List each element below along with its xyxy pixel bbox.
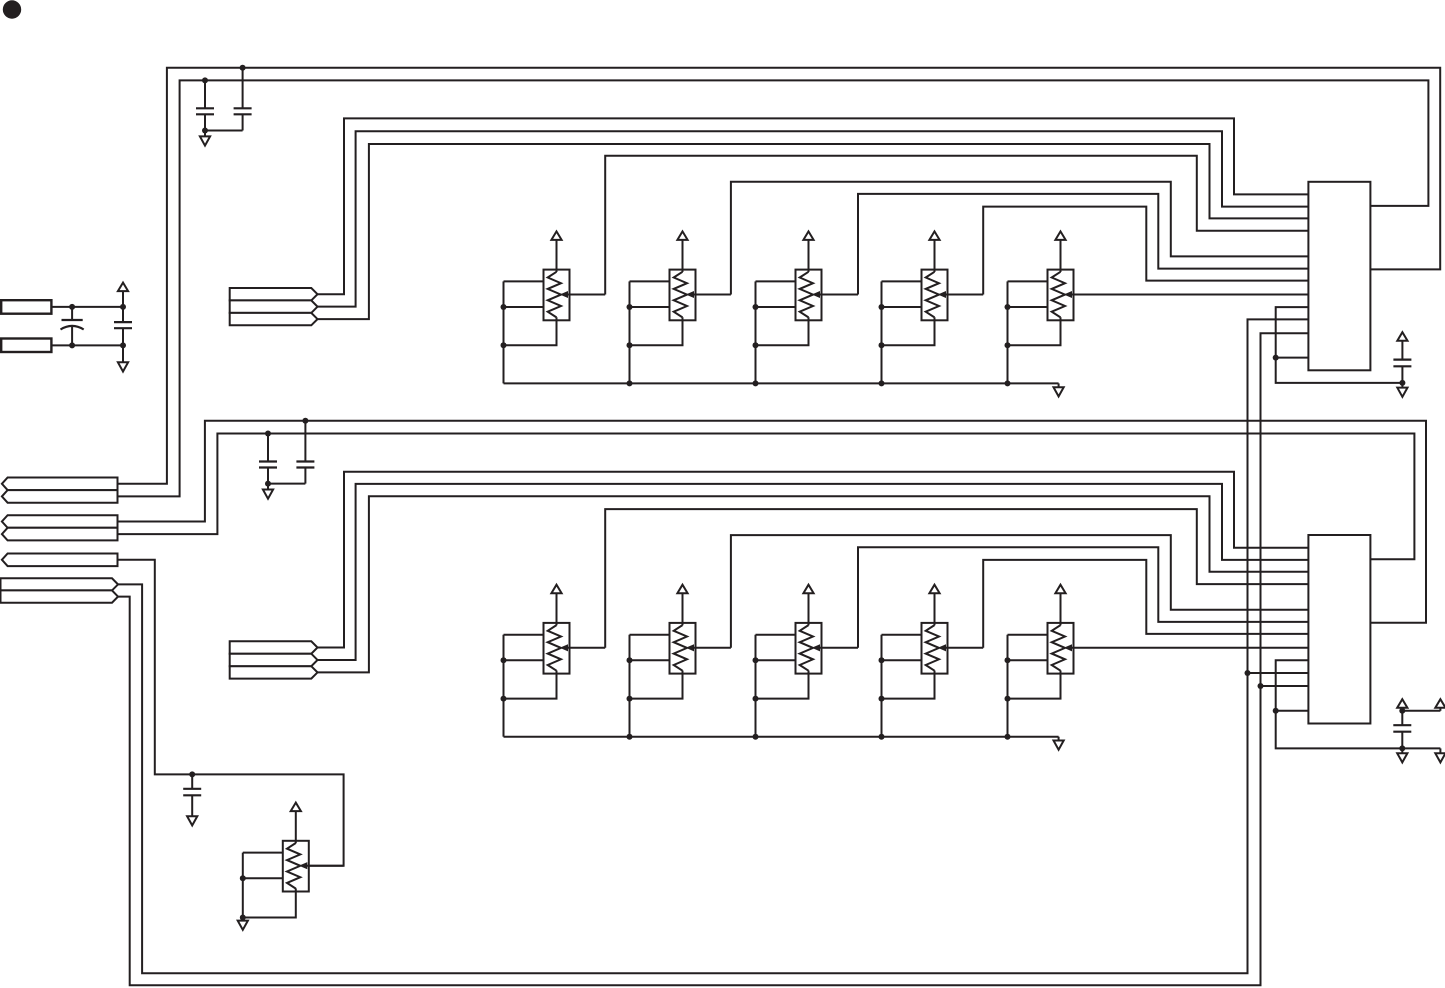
ground (section2 caps) — [263, 484, 273, 499]
wiper arrow of digital pot RV5 — [1065, 291, 1309, 297]
connector J5 band — [2, 554, 118, 567]
wire net W7 riser — [731, 535, 1309, 648]
terminal stub B of digital pot RV9 — [882, 659, 922, 661]
connector J4 band 1 — [2, 515, 118, 528]
connector J6 band 2 — [1, 590, 119, 602]
IC U1 — [1308, 182, 1370, 370]
wire BUSA pin stub — [1248, 672, 1309, 674]
node junction C8 gnd — [1399, 745, 1405, 751]
wire BUSB pin stub — [1261, 685, 1309, 687]
capacitor C3 (section1) — [1393, 360, 1411, 383]
wire GND1 pin stub — [1276, 357, 1309, 359]
bottom terminal of digital pot RV7 — [630, 671, 683, 699]
node junction C1/C2 gnd — [202, 128, 208, 134]
left bus wire of digital pot RV6 — [503, 635, 505, 737]
terminal stub A of digital pot RV8 — [756, 634, 796, 636]
left bus wire of digital pot RV8 — [755, 635, 757, 737]
bottom terminal of digital pot RV9 — [882, 671, 935, 699]
wire net VDD1 inner loop — [118, 80, 1428, 496]
terminal stub B of digital pot RV8 — [756, 659, 796, 661]
node junction B of digital pot RV1 — [501, 304, 507, 310]
wiper arrow of digital pot RV7 — [687, 645, 731, 651]
terminal stub A of digital pot RV1 — [504, 280, 544, 282]
left bus wire of digital pot RV10 — [1007, 635, 1009, 737]
node junction bus2 — [753, 734, 759, 740]
power arrow (battery) — [118, 283, 128, 307]
capacitor C5 — [114, 307, 132, 346]
bottom terminal of digital pot RV3 — [756, 317, 809, 345]
wiper arrow of digital pot RV11 — [300, 863, 344, 869]
node junction B of digital pot RV8 — [753, 657, 759, 663]
connector J3 band 1 — [2, 478, 118, 491]
wire net SIG2A — [318, 472, 1309, 648]
ground (battery) — [118, 345, 128, 371]
terminal stub A of digital pot RV5 — [1008, 280, 1048, 282]
wire net W3 riser — [858, 194, 1308, 295]
wire net W6 riser — [605, 509, 1308, 648]
wiper arrow of digital pot RV3 — [813, 291, 859, 297]
bottom terminal of digital pot RV8 — [756, 671, 809, 699]
wire net SIG2C — [318, 496, 1309, 672]
node junction on inner loop — [202, 77, 208, 83]
digital pot RV3 body with resistor element — [796, 270, 822, 321]
digital pot RV9 body with resistor element — [922, 623, 948, 674]
left bus wire of digital pot RV2 — [629, 281, 631, 383]
ground (section1 pot bus) — [1054, 383, 1064, 396]
left bus wire of digital pot RV7 — [629, 635, 631, 737]
left bus wire of digital pot RV3 — [755, 281, 757, 383]
connector J7 band 1 — [230, 641, 318, 653]
node junction C5 top — [120, 304, 126, 310]
digital pot RV5 body with resistor element — [1048, 270, 1074, 321]
terminal stub B of digital pot RV3 — [756, 306, 796, 308]
digital pot RV1 body with resistor element — [544, 270, 570, 321]
terminal stub A of digital pot RV2 — [630, 280, 670, 282]
terminal pad P1 — [1, 300, 51, 314]
ground (right edge) — [1435, 748, 1445, 762]
node junction bus1 — [879, 380, 885, 386]
terminal stub B of digital pot RV6 — [504, 659, 544, 661]
capacitor C7 (section2) — [268, 421, 314, 484]
node junction GND1 pin — [1273, 355, 1279, 361]
left bus wire of digital pot RV1 — [503, 281, 505, 383]
terminal stub B of digital pot RV1 — [504, 306, 544, 308]
power arrow of digital pot RV10 — [1055, 585, 1065, 626]
terminal stub B of digital pot RV2 — [630, 306, 670, 308]
wire net W1 riser — [605, 156, 1308, 295]
wire net W2 riser — [731, 182, 1309, 295]
power arrow of digital pot RV6 — [551, 585, 561, 626]
node junction bottom of digital pot RV8 — [753, 696, 759, 702]
node junction bottom of digital pot RV6 — [501, 696, 507, 702]
bottom terminal of digital pot RV1 — [504, 317, 557, 345]
terminal stub A of digital pot RV6 — [504, 634, 544, 636]
power arrow of digital pot RV7 — [677, 585, 687, 626]
bottom terminal of digital pot RV10 — [1008, 671, 1061, 699]
connector J3 band 2 — [2, 490, 118, 503]
connector J2 band 2 — [230, 300, 318, 313]
power arrow of digital pot RV8 — [803, 585, 813, 626]
connector J4 band 2 — [2, 528, 118, 541]
wire net SIG1A — [318, 118, 1309, 294]
terminal stub A of digital pot RV11 — [243, 852, 283, 854]
digital pot RV7 body with resistor element — [670, 623, 696, 674]
node junction bus2 — [627, 734, 633, 740]
bottom terminal of digital pot RV2 — [630, 317, 683, 345]
capacitor C9 — [183, 774, 201, 816]
terminal stub A of digital pot RV9 — [882, 634, 922, 636]
power arrow of digital pot RV3 — [803, 231, 813, 272]
wire net POTGND1 bus — [504, 382, 1059, 384]
node junction bus1 — [1005, 380, 1011, 386]
wiper arrow of digital pot RV8 — [813, 645, 859, 651]
terminal stub A of digital pot RV3 — [756, 280, 796, 282]
wire net POTGND2 bus — [504, 736, 1059, 738]
digital pot RV4 body with resistor element — [922, 270, 948, 321]
capacitor C1 (section1) — [196, 80, 214, 130]
node junction on inner loop 2 — [265, 431, 271, 437]
power arrow of digital pot RV1 — [551, 231, 561, 272]
terminal stub A of digital pot RV4 — [882, 280, 922, 282]
node junction B of digital pot RV4 — [879, 304, 885, 310]
wire net VCC1 outer loop — [118, 68, 1440, 484]
power arrow (section1 cap) — [1397, 332, 1407, 359]
node junction B of digital pot RV3 — [753, 304, 759, 310]
node junction bottom of digital pot RV9 — [879, 696, 885, 702]
wiper arrow of digital pot RV10 — [1065, 645, 1309, 651]
node junction bottom of digital pot RV10 — [1005, 696, 1011, 702]
capacitor C8 (section2) — [1393, 711, 1411, 749]
wiper arrow of digital pot RV4 — [939, 291, 984, 297]
digital pot RV2 body with resistor element — [670, 270, 696, 321]
node junction B of digital pot RV5 — [1005, 304, 1011, 310]
wire net VBAT- — [51, 344, 123, 346]
node junction BUSA to U2 — [1245, 670, 1251, 676]
node junction B of digital pot RV9 — [879, 657, 885, 663]
terminal stub A of digital pot RV7 — [630, 634, 670, 636]
ground (section2 pot bus) — [1054, 737, 1064, 750]
node junction bus1 — [753, 380, 759, 386]
node junction B of digital pot RV6 — [501, 657, 507, 663]
node junction B of digital pot RV7 — [627, 657, 633, 663]
wiper arrow of digital pot RV9 — [939, 645, 984, 651]
node junction bottom of digital pot RV5 — [1005, 342, 1011, 348]
power arrow (right edge) — [1435, 699, 1445, 711]
wiper arrow of digital pot RV2 — [687, 291, 731, 297]
power arrow (section2 cap) — [1397, 699, 1407, 711]
digital pot RV11 body with resistor element — [283, 841, 309, 892]
wire net VBAT+ — [51, 306, 123, 308]
connector J7 band 3 — [230, 666, 318, 678]
terminal stub B of digital pot RV7 — [630, 659, 670, 661]
wire net BUSA long vertical — [118, 319, 1308, 973]
capacitor C6 (section2) — [259, 434, 277, 484]
node junction bottom of digital pot RV1 — [501, 342, 507, 348]
node junction B of digital pot RV11 — [240, 875, 246, 881]
ground (RV11) — [238, 918, 248, 930]
node junction GND2 pin — [1273, 708, 1279, 714]
wiper arrow of digital pot RV6 — [561, 645, 606, 651]
wire net W8 riser — [858, 547, 1308, 648]
power arrow of digital pot RV2 — [677, 231, 687, 272]
wire net W4 riser — [983, 207, 1308, 295]
node junction B of digital pot RV2 — [627, 304, 633, 310]
node junction C6/C7 gnd — [265, 481, 271, 487]
node junction C4 bottom — [69, 342, 75, 348]
connector J6 band 1 — [1, 578, 119, 590]
digital pot RV6 body with resistor element — [544, 623, 570, 674]
wire GND2 pin stub — [1276, 710, 1309, 712]
left bus wire of digital pot RV4 — [881, 281, 883, 383]
node junction BUSB to U2 — [1258, 683, 1264, 689]
wire net GND2 stub right — [1402, 747, 1440, 749]
wire net SENSE — [118, 560, 344, 866]
wire net W9 riser — [983, 560, 1308, 648]
node junction bottom of digital pot RV3 — [753, 342, 759, 348]
wiper arrow of digital pot RV1 — [561, 291, 606, 297]
bottom terminal of digital pot RV11 — [243, 888, 296, 917]
connector J2 band 1 — [230, 288, 318, 300]
ground (C9) — [187, 816, 197, 825]
power arrow of digital pot RV11 — [291, 803, 301, 844]
ground (section2 cap) — [1397, 748, 1407, 762]
power arrow of digital pot RV4 — [929, 231, 939, 272]
node junction bus1 — [627, 380, 633, 386]
digital pot RV10 body with resistor element — [1048, 623, 1074, 674]
bottom terminal of digital pot RV6 — [504, 671, 557, 699]
left bus wire of digital pot RV11 — [242, 853, 244, 918]
wire net SIG1C — [318, 144, 1309, 319]
wire net SIG1B — [318, 131, 1309, 306]
IC U2 — [1308, 535, 1370, 724]
terminal stub B of digital pot RV10 — [1008, 659, 1048, 661]
terminal stub B of digital pot RV11 — [243, 877, 283, 879]
wire net VDD2 inner loop — [118, 434, 1414, 560]
power arrow of digital pot RV5 — [1055, 231, 1065, 272]
capacitor C2 (section1) — [205, 68, 252, 131]
wire net VCC2 outer loop — [118, 421, 1426, 623]
node junction on outer loop — [240, 65, 246, 71]
node junction bottom of digital pot RV4 — [879, 342, 885, 348]
terminal pad P2 — [1, 339, 51, 353]
left bus wire of digital pot RV5 — [1007, 281, 1009, 383]
node junction on outer loop 2 — [302, 418, 308, 424]
node junction bus2 — [1005, 734, 1011, 740]
node junction C9 tap — [189, 771, 195, 777]
node junction C4 top — [69, 304, 75, 310]
node junction bottom of digital pot RV11 — [240, 915, 246, 921]
node junction B of digital pot RV10 — [1005, 657, 1011, 663]
terminal stub A of digital pot RV10 — [1008, 634, 1048, 636]
ground (section1 caps) — [200, 131, 210, 146]
power arrow of digital pot RV9 — [929, 585, 939, 626]
node junction bus2 — [879, 734, 885, 740]
wire net GND1 bracket — [1276, 307, 1403, 383]
bottom terminal of digital pot RV5 — [1008, 317, 1061, 345]
left bus wire of digital pot RV9 — [881, 635, 883, 737]
node junction C5 bottom — [120, 342, 126, 348]
terminal stub B of digital pot RV5 — [1008, 306, 1048, 308]
connector J7 band 2 — [230, 654, 318, 667]
ground (section1 cap) — [1397, 383, 1407, 397]
wire net BUSB long vertical — [118, 333, 1308, 985]
wire net VCC2 stub right — [1402, 710, 1440, 712]
node: sheet marker dot — [3, 0, 21, 18]
digital pot RV8 body with resistor element — [796, 623, 822, 674]
node junction bottom of digital pot RV7 — [627, 696, 633, 702]
terminal stub B of digital pot RV4 — [882, 306, 922, 308]
capacitor C4 polarized — [61, 307, 84, 346]
node junction C3 gnd — [1399, 380, 1405, 386]
bottom terminal of digital pot RV4 — [882, 317, 935, 345]
wire net SIG2B — [318, 484, 1309, 660]
wire net GND2 bracket — [1276, 660, 1403, 748]
node junction bottom of digital pot RV2 — [627, 342, 633, 348]
node junction C8 top — [1399, 708, 1405, 714]
connector J2 band 3 — [230, 313, 318, 325]
